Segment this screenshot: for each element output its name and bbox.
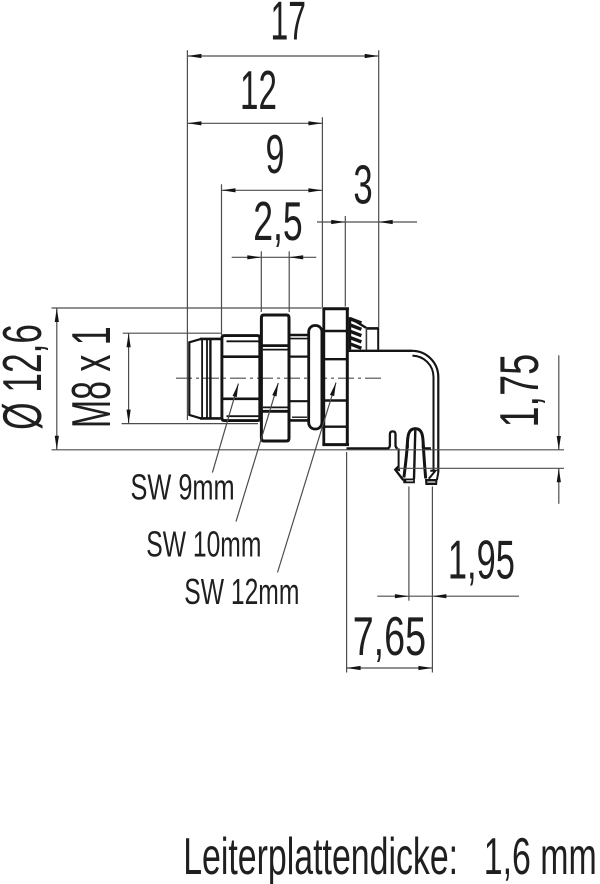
PCB bottom surface line bbox=[398, 467, 564, 469]
svg-text:SW 9mm: SW 9mm bbox=[130, 467, 234, 508]
fork left strand bbox=[404, 445, 407, 478]
extension line bracket left x=346.6 bbox=[346, 452, 348, 673]
rear body right edge bbox=[377, 328, 379, 350]
svg-text:Ø 12,6: Ø 12,6 bbox=[0, 324, 53, 430]
leader SW 12mm bbox=[278, 383, 337, 573]
extension line rear end x=378.7 bbox=[378, 50, 380, 327]
SW10 hex corner bulge right bbox=[288, 346, 291, 412]
dimension 1,75 line lower bbox=[558, 468, 560, 504]
left solder pin wedge bbox=[395, 466, 403, 480]
locating bump bbox=[388, 431, 398, 448]
rear thread spine bbox=[349, 317, 352, 349]
SW12 hex band line 3 bbox=[324, 399, 348, 401]
rear body inner line bbox=[365, 329, 367, 350]
ring section chamfer line top bbox=[289, 338, 310, 340]
svg-text:1,95: 1,95 bbox=[448, 529, 515, 591]
ring section band lower bbox=[289, 400, 310, 402]
dimension Dia 12,6 line bbox=[56, 308, 58, 450]
bracket bottom edge right part bbox=[423, 447, 431, 449]
dimension M8 x 1 line bbox=[128, 333, 130, 423]
svg-text:12: 12 bbox=[240, 59, 277, 121]
SW12 hex band line 4 bbox=[324, 426, 348, 428]
SW9 hex corner bulge left bbox=[220, 357, 223, 399]
svg-text:SW 12mm: SW 12mm bbox=[184, 571, 299, 612]
SW10 hex chamfer line upper bbox=[263, 349, 288, 351]
extension line top of SW12 y=308 bbox=[52, 307, 322, 309]
extension line left face x=187.4 bbox=[186, 50, 188, 420]
bracket leg outer taper bbox=[437, 473, 438, 480]
svg-text:17: 17 bbox=[271, 0, 306, 52]
front plug groove line 3 bbox=[209, 339, 211, 418]
extension line SW10 right x=289.2 bbox=[288, 251, 290, 312]
svg-text:3: 3 bbox=[353, 154, 372, 216]
svg-text:7,65: 7,65 bbox=[353, 605, 426, 667]
fork center line bbox=[414, 430, 415, 479]
front plug face bbox=[189, 339, 201, 419]
front plug groove line 2 bbox=[206, 340, 208, 418]
extension line thread bottom y=423.6 bbox=[122, 423, 258, 425]
svg-text:1,75: 1,75 bbox=[488, 354, 550, 428]
SW10 hex band line upper bbox=[261, 344, 289, 347]
left foot notch bbox=[406, 480, 413, 482]
SW10 hex chamfer line lower bbox=[263, 406, 288, 408]
SW12 hex left edge bbox=[322, 308, 325, 446]
bracket bottom edge left part bbox=[347, 447, 389, 449]
left solder pin foot bbox=[403, 479, 415, 484]
bracket top edge bbox=[348, 350, 412, 352]
ring section bottom edge bbox=[289, 419, 310, 422]
centerline bbox=[176, 377, 385, 379]
PCB top surface line bbox=[52, 449, 565, 451]
svg-text:9: 9 bbox=[265, 123, 284, 185]
rear thread teeth bbox=[350, 319, 362, 349]
SW12 hex band line 1 bbox=[324, 330, 348, 332]
extension line hex start x=221.5 bbox=[221, 184, 223, 335]
SW9 hex chamfer line upper bbox=[227, 340, 260, 342]
SW10 hex band line lower bbox=[261, 410, 289, 413]
bracket leg Z detail bbox=[429, 471, 436, 479]
SW9 hex band line lower bbox=[222, 397, 260, 400]
dimension 17 line bbox=[187, 55, 378, 57]
bracket outer corner and right edge bbox=[412, 351, 438, 473]
rear body top edge bbox=[366, 327, 379, 330]
ring section top edge bbox=[289, 334, 310, 337]
thread relief cone bbox=[351, 318, 366, 328]
extension line mount face x=344.7 bbox=[344, 216, 346, 307]
svg-text:1,6 mm: 1,6 mm bbox=[484, 827, 597, 884]
fork dome bbox=[407, 429, 423, 448]
SW12 hex bottom edge bbox=[322, 443, 349, 446]
leader SW 9mm bbox=[212, 384, 238, 473]
dimension 3 line bbox=[317, 221, 417, 223]
right solder pin foot bbox=[425, 479, 438, 485]
extension line SW10 left x=261.3 bbox=[260, 251, 262, 312]
ring section band upper bbox=[289, 356, 310, 358]
extension line flange x=322.4 bbox=[321, 117, 323, 307]
extension line thread top y=333.2 bbox=[123, 332, 221, 334]
left solder pin wedge fill bbox=[395, 465, 400, 471]
SW10 hex outline bbox=[261, 315, 289, 441]
SW9 hex band line upper bbox=[222, 355, 260, 358]
svg-text:Leiterplattendicke:: Leiterplattendicke: bbox=[183, 827, 458, 884]
svg-text:SW 10mm: SW 10mm bbox=[146, 524, 261, 565]
dimension 1,75 line upper bbox=[558, 355, 560, 450]
svg-text:M8 x 1: M8 x 1 bbox=[60, 326, 122, 428]
SW9 hex chamfer line lower bbox=[227, 415, 260, 417]
ring section chamfer line bottom bbox=[292, 416, 307, 418]
SW12 hex right edge bbox=[346, 308, 349, 446]
fork right strand bbox=[423, 445, 425, 479]
dimension 12 line bbox=[187, 122, 322, 124]
front plug top edge bbox=[200, 338, 221, 341]
washer O-ring bbox=[309, 326, 322, 430]
SW12 hex band line 2 bbox=[324, 358, 348, 360]
SW10 hex corner bulge left bbox=[260, 346, 263, 412]
SW9 hex outline bbox=[222, 336, 260, 421]
extension line right leg x=432.4 bbox=[431, 487, 433, 673]
dimension 7,65 line bbox=[347, 667, 433, 669]
SW12 hex top edge bbox=[322, 307, 349, 310]
bracket inner corner and inner edge bbox=[412, 356, 433, 471]
extension line left pin x=408.9 bbox=[408, 487, 410, 601]
front plug bottom edge bbox=[200, 417, 221, 420]
left solder pin edge bbox=[398, 448, 400, 466]
dimension 2,5 line bbox=[232, 256, 317, 258]
svg-text:2,5: 2,5 bbox=[253, 190, 303, 252]
right foot notch bbox=[427, 481, 435, 483]
dimension 9 line bbox=[222, 189, 323, 191]
dimension 1,95 line bbox=[377, 595, 519, 597]
leader SW 10mm bbox=[236, 383, 278, 522]
front plug groove line 1 bbox=[201, 340, 203, 418]
